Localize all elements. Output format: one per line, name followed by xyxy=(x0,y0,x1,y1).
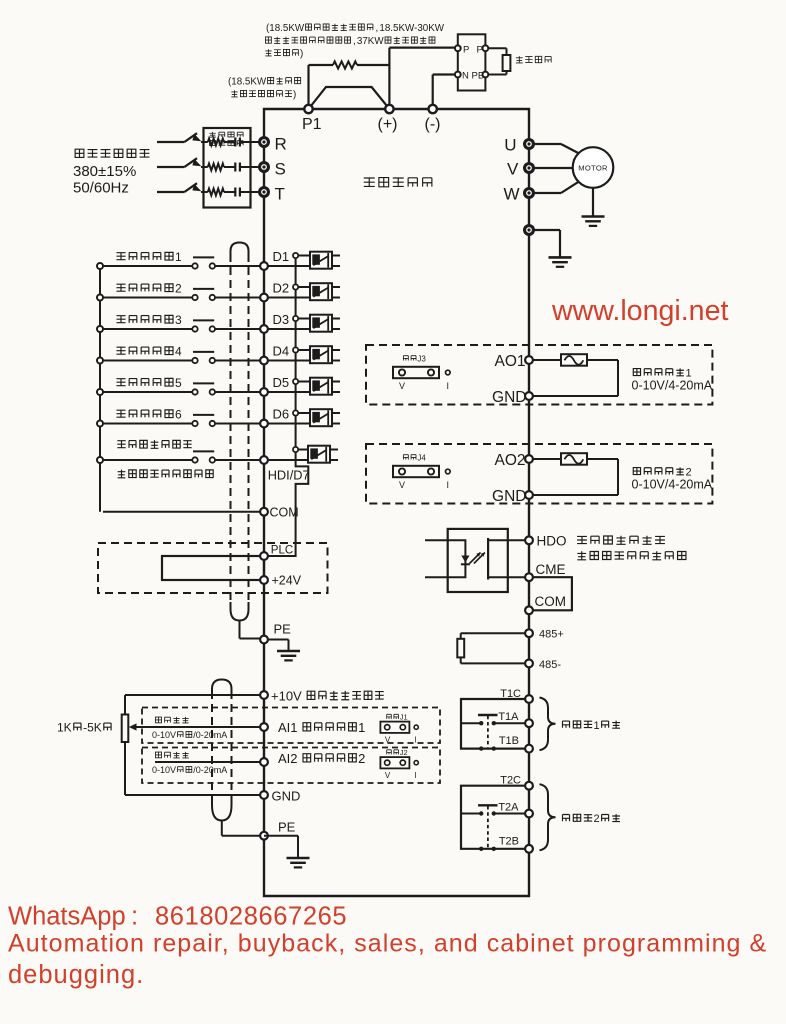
svg-text:0-10V/4-20mA: 0-10V/4-20mA xyxy=(632,379,713,393)
svg-text:1: 1 xyxy=(594,720,600,732)
svg-text:T2B: T2B xyxy=(499,835,519,847)
svg-text:GND: GND xyxy=(492,389,526,406)
svg-text:1K: 1K xyxy=(57,721,72,735)
svg-text:V: V xyxy=(385,771,391,780)
svg-text:D4: D4 xyxy=(273,344,290,359)
svg-text:I: I xyxy=(414,736,416,745)
svg-text:D1: D1 xyxy=(273,249,290,264)
svg-text:(18.5KW: (18.5KW xyxy=(266,23,305,34)
svg-text:I: I xyxy=(447,480,450,490)
svg-text:V: V xyxy=(507,160,519,179)
svg-text:W: W xyxy=(503,185,519,204)
svg-text:PE: PE xyxy=(278,820,296,835)
svg-text:debugging.: debugging. xyxy=(8,961,144,989)
svg-text:I: I xyxy=(447,381,450,391)
svg-text:J1: J1 xyxy=(400,713,408,722)
svg-text:J3: J3 xyxy=(417,354,426,363)
svg-text:T1A: T1A xyxy=(498,711,519,723)
svg-text:WhatsApp: WhatsApp xyxy=(8,903,126,931)
svg-text:V: V xyxy=(399,381,405,391)
svg-text:D6: D6 xyxy=(273,407,290,422)
svg-text:/0-20mA: /0-20mA xyxy=(193,765,227,775)
svg-text:+10V: +10V xyxy=(271,689,302,704)
svg-text:J2: J2 xyxy=(400,748,408,757)
svg-text:R: R xyxy=(275,135,287,154)
svg-text:T: T xyxy=(275,185,285,204)
svg-text:GND: GND xyxy=(492,488,526,505)
svg-text:/0-20mA: /0-20mA xyxy=(193,730,227,740)
svg-text:37KW: 37KW xyxy=(357,36,384,47)
svg-text:): ) xyxy=(300,49,303,60)
svg-text:T2A: T2A xyxy=(498,802,519,814)
svg-text:AO2: AO2 xyxy=(494,452,525,469)
svg-text:V: V xyxy=(385,736,391,745)
svg-text:T2C: T2C xyxy=(500,775,521,787)
svg-text:8618028667265: 8618028667265 xyxy=(155,903,347,931)
svg-text:4: 4 xyxy=(175,345,182,359)
svg-text:2: 2 xyxy=(175,282,182,296)
svg-text:D2: D2 xyxy=(273,281,290,296)
svg-text:I: I xyxy=(414,771,416,780)
svg-text:18.5KW-30KW: 18.5KW-30KW xyxy=(379,23,444,34)
svg-text:PE: PE xyxy=(274,622,292,637)
svg-text:2: 2 xyxy=(594,813,600,825)
svg-text:2: 2 xyxy=(358,751,365,766)
svg-text:V: V xyxy=(399,480,405,490)
svg-text:COM: COM xyxy=(535,594,567,609)
svg-text:P: P xyxy=(463,45,469,56)
svg-text:,: , xyxy=(376,23,379,34)
svg-text:485+: 485+ xyxy=(539,629,564,641)
svg-text:T1B: T1B xyxy=(499,735,519,747)
svg-text:1: 1 xyxy=(175,250,182,264)
svg-text:P: P xyxy=(477,45,483,56)
svg-text:485-: 485- xyxy=(539,659,561,671)
svg-text:HDI/D7: HDI/D7 xyxy=(268,468,310,483)
svg-text:AI2: AI2 xyxy=(278,751,298,766)
svg-text:): ) xyxy=(293,90,296,101)
svg-text::: : xyxy=(131,903,138,931)
svg-text:COM: COM xyxy=(270,506,299,520)
svg-text:1: 1 xyxy=(358,720,365,735)
svg-text:P1: P1 xyxy=(302,116,322,133)
svg-text:PB: PB xyxy=(472,71,485,82)
svg-text:(-): (-) xyxy=(425,116,441,133)
svg-text:GND: GND xyxy=(272,789,301,804)
svg-text:6: 6 xyxy=(175,408,182,422)
svg-text:U: U xyxy=(504,136,516,155)
svg-text:N: N xyxy=(462,71,469,82)
svg-text:,: , xyxy=(353,36,356,47)
svg-text:0-10V: 0-10V xyxy=(152,765,176,775)
svg-text:PLC: PLC xyxy=(271,545,293,557)
svg-text:Automation repair, buyback, sa: Automation repair, buyback, sales, and c… xyxy=(8,930,767,958)
svg-text:MOTOR: MOTOR xyxy=(578,164,608,173)
svg-text:-5K: -5K xyxy=(83,721,102,735)
svg-text:0-10V/4-20mA: 0-10V/4-20mA xyxy=(632,478,713,492)
svg-text:AI1: AI1 xyxy=(278,720,298,735)
svg-text:3: 3 xyxy=(175,313,182,327)
svg-text:50/60Hz: 50/60Hz xyxy=(73,180,129,197)
svg-text:+24V: +24V xyxy=(272,574,302,588)
svg-text:0-10V: 0-10V xyxy=(152,730,176,740)
svg-text:D3: D3 xyxy=(273,312,290,327)
svg-text:J4: J4 xyxy=(417,453,426,462)
svg-text:T1C: T1C xyxy=(500,688,521,700)
svg-text:5: 5 xyxy=(175,376,182,390)
svg-text:380±15%: 380±15% xyxy=(73,163,136,180)
svg-text:(18.5KW: (18.5KW xyxy=(228,77,267,88)
svg-text:AO1: AO1 xyxy=(494,353,525,370)
svg-text:(+): (+) xyxy=(378,116,398,133)
svg-text:S: S xyxy=(275,160,286,179)
svg-text:www.longi.net: www.longi.net xyxy=(551,295,728,327)
svg-text:D5: D5 xyxy=(273,375,290,390)
svg-text:HDO: HDO xyxy=(537,534,567,549)
svg-text:CME: CME xyxy=(536,562,566,577)
